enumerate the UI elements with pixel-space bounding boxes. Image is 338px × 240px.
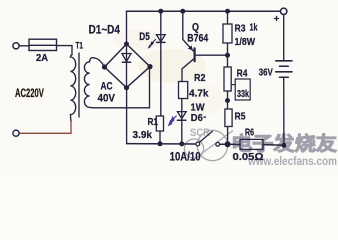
stray mark after D6: [204, 116, 206, 118]
wire secondary bottom to bridge right node: [90, 67, 150, 108]
box around 33k value: [235, 79, 250, 100]
transformer core: [78, 53, 80, 117]
wire mains neutral vertical (red): [70, 122, 72, 134]
wire fuse to transformer: [57, 46, 73, 55]
wire terminal to fuse: [19, 45, 29, 47]
LED D5 arrowhead 2: [148, 45, 151, 49]
wire bridge bottom node down: [126, 88, 128, 144]
svg-text:R5: R5: [235, 111, 246, 123]
node bridge right AC input: [147, 64, 152, 69]
LED D6 light arrows: [169, 116, 177, 126]
resistor R4 33k: [224, 67, 231, 91]
top rail: [127, 10, 281, 12]
terminal lower left: [13, 130, 19, 136]
resistor R5: [225, 109, 232, 127]
junction top rail / Q emitter: [180, 9, 185, 14]
svg-text:R6: R6: [245, 128, 254, 139]
transformer T1 primary winding: [70, 55, 75, 122]
resistor R3 1k 1/8W: [223, 24, 232, 43]
wire terminal to battery: [283, 15, 285, 61]
resistor R1 3.9k: [156, 116, 163, 131]
tick R4 to 33k box: [231, 84, 235, 86]
svg-text:1k: 1k: [250, 22, 258, 34]
bridge rectifier D1~D4 diamond: [105, 44, 151, 88]
transistor Q emitter arrowhead: [188, 45, 193, 50]
junction R3 / R4 / Q base: [225, 53, 230, 58]
junction R4 / R5: [225, 98, 230, 103]
wire R1 to bottom rail: [159, 131, 161, 144]
svg-text:4.7k: 4.7k: [189, 88, 209, 100]
svg-text:Q: Q: [192, 22, 199, 34]
svg-text:3.9k: 3.9k: [133, 129, 153, 141]
junction top rail / D5 branch: [158, 9, 163, 14]
battery 36V plates: [276, 60, 292, 62]
transformer T1 secondary winding: [84, 58, 95, 108]
junction bottom rail / battery: [281, 143, 286, 148]
junction top rail / R3: [225, 9, 230, 14]
switch terminal right: [216, 142, 220, 146]
terminal battery plus: [281, 8, 287, 14]
resistor R6 shunt: [240, 139, 263, 149]
svg-text:T1: T1: [76, 41, 84, 52]
svg-text:D5: D5: [139, 31, 150, 43]
switch blade: [199, 131, 212, 142]
svg-text:40V: 40V: [98, 93, 116, 105]
LED D6: [177, 112, 186, 119]
transistor Q emitter wire: [183, 11, 194, 51]
wire battery to bottom rail: [283, 77, 285, 145]
svg-text:2A: 2A: [36, 52, 48, 64]
svg-text:R4: R4: [237, 68, 248, 80]
switch terminal left: [196, 142, 200, 146]
svg-text:R1: R1: [148, 116, 159, 128]
node bridge bottom (-): [124, 85, 129, 90]
wire D5 to R1: [160, 42, 162, 116]
node bridge left AC input: [102, 64, 107, 69]
wire R5 to bottom rail: [227, 127, 229, 145]
wire R3 to base junction: [227, 43, 229, 55]
transistor Q base bar: [194, 48, 196, 61]
node bridge top (+): [124, 42, 129, 47]
svg-text:SCR: SCR: [190, 127, 210, 139]
wire bridge top node to top rail: [126, 11, 128, 44]
svg-text:10A/10: 10A/10: [170, 151, 201, 163]
junction bottom rail / R5: [225, 141, 231, 147]
wire R2 to D6: [181, 99, 183, 121]
transistor Q collector wire: [182, 59, 194, 82]
LED D5 light arrows: [151, 39, 155, 43]
svg-text:0.05Ω: 0.05Ω: [233, 151, 264, 163]
fuse F 2A: [29, 39, 57, 50]
resistor R2 4.7k 1W: [179, 82, 188, 99]
bridge inner diode: [126, 44, 128, 54]
wire R3 top: [227, 11, 229, 24]
LED D5 branch wire: [160, 11, 162, 42]
svg-text:R3: R3: [235, 23, 246, 35]
svg-text:AC220V: AC220V: [15, 88, 44, 100]
svg-text:R2: R2: [194, 72, 206, 84]
LED D5: [156, 35, 165, 42]
LED D5 arrowhead 1: [150, 41, 153, 45]
terminal upper left: [13, 43, 19, 49]
wire junction to R4: [227, 55, 229, 67]
bottom rail: [127, 143, 197, 145]
transistor Q base wire to R3/R4 junction: [196, 54, 228, 56]
plus sign: [274, 18, 278, 20]
svg-text:1/8W: 1/8W: [235, 36, 256, 48]
wire mains neutral horizontal (red): [19, 132, 71, 134]
svg-text:33k: 33k: [237, 88, 249, 100]
wire secondary top to bridge left node: [95, 58, 105, 67]
wire D6 to bottom rail: [181, 120, 183, 144]
junction bottom rail / D6: [179, 141, 184, 146]
junction bottom rail / R1: [158, 141, 163, 146]
wire R4 to R5: [227, 91, 229, 109]
svg-text:AC: AC: [101, 81, 113, 93]
svg-text:B764: B764: [187, 33, 209, 45]
svg-text:D6: D6: [191, 112, 203, 124]
svg-text:36V: 36V: [259, 67, 273, 79]
svg-text:D1~D4: D1~D4: [89, 24, 121, 36]
watermark logo circles: [184, 130, 233, 160]
